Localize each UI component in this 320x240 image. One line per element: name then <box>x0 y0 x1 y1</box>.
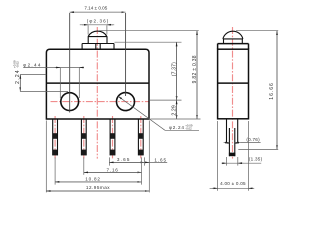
dimension 2.29 <box>172 100 178 119</box>
dimension (1.35) pin shoulder width <box>222 157 263 166</box>
svg-text:12.95max: 12.95max <box>86 185 110 190</box>
front view left hole <box>61 93 79 111</box>
svg-text:7.16: 7.16 <box>107 167 119 172</box>
svg-text:1.65: 1.65 <box>154 157 167 162</box>
centre line pin 2 <box>83 116 85 159</box>
pin 3 <box>110 119 115 155</box>
side view plunger neck <box>223 39 243 44</box>
side view plunger dome <box>223 31 243 39</box>
svg-text:7.14 ± 0.05: 7.14 ± 0.05 <box>84 6 107 11</box>
svg-text:2.24: 2.24 <box>15 69 21 84</box>
extension line body bottom right <box>150 118 200 120</box>
side view body outline <box>218 49 249 119</box>
svg-text:(1.35): (1.35) <box>249 157 263 162</box>
svg-text:φ2.44: φ2.44 <box>23 62 41 67</box>
side view pin <box>227 119 238 156</box>
dimension 1.65 <box>145 157 168 162</box>
pin 4 <box>138 119 143 155</box>
dimension 10.82 <box>55 157 141 184</box>
dimension 2.24 +0.09/-0.02 (left side) <box>12 60 68 91</box>
front view right hole <box>117 93 135 111</box>
front view: horizontal centre line through holes <box>51 101 149 103</box>
svg-text:(7.37): (7.37) <box>172 62 178 76</box>
extension line collar top right <box>115 41 182 43</box>
svg-text:2.29: 2.29 <box>172 105 178 116</box>
dimension 12.95max overall width <box>46 121 149 193</box>
svg-text:9.82 ± 0.38: 9.82 ± 0.38 <box>192 55 198 83</box>
svg-text:16.66: 16.66 <box>269 82 275 99</box>
svg-text:-0.02: -0.02 <box>185 127 192 131</box>
dimension 7.14±0.05 (hole centre distance) <box>70 6 126 113</box>
svg-text:(φ2.36): (φ2.36) <box>87 19 110 24</box>
side view: vertical centre line <box>232 27 234 159</box>
svg-text:φ2.24: φ2.24 <box>169 125 185 130</box>
dimension 7.16 <box>84 157 142 174</box>
dimension (φ2.36) plunger dome diameter <box>80 19 114 35</box>
dimension 4.00±0.05 side body width <box>210 121 255 191</box>
dimension (0.76) pin thickness <box>224 137 261 143</box>
svg-text:4.00 ± 0.05: 4.00 ± 0.05 <box>220 181 246 186</box>
dimension φ2.44 left hole diameter <box>23 62 84 98</box>
centre line pin 1 <box>54 116 56 159</box>
pin 1 <box>53 119 58 155</box>
dimension 3.65 pin pitch <box>109 157 144 165</box>
svg-text:10.82: 10.82 <box>85 177 101 182</box>
svg-text:-0.02: -0.02 <box>15 61 19 68</box>
front view plunger collar <box>82 44 114 50</box>
extension line mid feature right <box>150 99 182 101</box>
centre line pin 3 <box>112 116 114 159</box>
pin 2 <box>81 119 86 155</box>
dimension (7.37) <box>172 42 178 100</box>
centre line pin 4 <box>140 116 142 159</box>
dimension 9.82±0.38 <box>192 31 198 119</box>
front view: vertical centre line of plunger <box>96 27 98 159</box>
front view body outline <box>46 49 149 119</box>
front view plunger dome <box>88 31 107 37</box>
svg-text:3.65: 3.65 <box>117 157 131 162</box>
side view plunger flange <box>218 44 249 50</box>
front view plunger neck <box>88 37 107 44</box>
extension line from front dome top <box>99 30 199 32</box>
dimension 16.66 overall height <box>236 31 278 150</box>
leader φ2.24 +0.09/-0.02 right hole <box>118 96 199 130</box>
